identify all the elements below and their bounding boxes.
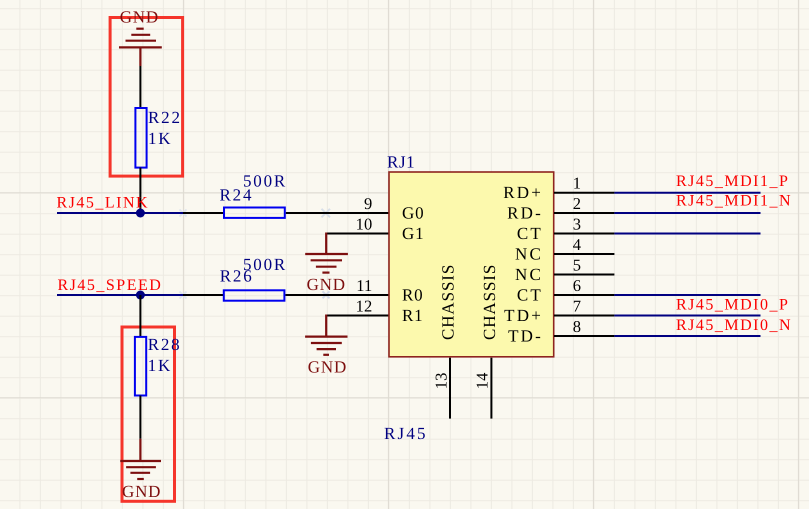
- pin name RD-: [507, 204, 543, 223]
- svg-text:12: 12: [356, 297, 373, 316]
- resistor R24: [220, 172, 288, 218]
- svg-text:CT: CT: [517, 286, 543, 305]
- svg-text:CHASSIS: CHASSIS: [439, 264, 458, 340]
- svg-text:500R: 500R: [243, 255, 287, 274]
- power port GND (pin 10): [305, 233, 348, 273]
- svg-text:7: 7: [573, 297, 581, 316]
- svg-text:8: 8: [573, 317, 581, 336]
- net label RJ45_MDI1_P: [676, 173, 789, 190]
- svg-text:13: 13: [431, 372, 450, 389]
- pin name CHASSIS (pin 14): [480, 264, 499, 340]
- wire pin 1: [614, 192, 760, 194]
- pin 10 number: [356, 215, 373, 234]
- wire / pin from GND to R22: [139, 66, 141, 108]
- GND label (bottom): [122, 482, 161, 501]
- pin name R0: [402, 286, 423, 305]
- pin 2: [554, 194, 614, 213]
- svg-text:2: 2: [573, 194, 581, 213]
- svg-text:3: 3: [573, 215, 581, 234]
- net label RJ45_MDI0_N: [676, 317, 792, 334]
- wire pin 7: [614, 315, 760, 317]
- pin name R1: [402, 306, 423, 325]
- svg-text:9: 9: [364, 194, 372, 213]
- pin 6: [554, 276, 614, 295]
- wire from junction to R28: [139, 295, 141, 337]
- pin 13: [431, 358, 450, 419]
- wire pin 6: [614, 294, 760, 296]
- GND label (pin 12): [308, 358, 347, 377]
- svg-text:RJ45_LINK: RJ45_LINK: [57, 195, 150, 212]
- pin name RD+: [503, 183, 543, 202]
- wire pin 8: [614, 335, 760, 337]
- pin name G1: [402, 224, 424, 243]
- junction on RJ45_SPEED: [136, 291, 145, 300]
- svg-text:GND: GND: [307, 275, 346, 294]
- svg-text:R0: R0: [402, 286, 423, 305]
- svg-text:GND: GND: [122, 482, 161, 501]
- svg-text:RD+: RD+: [503, 183, 543, 202]
- GND label (pin 10): [307, 275, 346, 294]
- connector RJ1 body: [389, 172, 554, 357]
- GND label (top): [120, 8, 159, 27]
- wire vertex marker (LINK): [180, 210, 187, 217]
- no-ERC marker on pin 11: [323, 291, 330, 298]
- net label RJ45_MDI0_P: [676, 297, 789, 314]
- net label RJ45_SPEED: [58, 277, 163, 294]
- red highlight box around R28/GND: [122, 327, 175, 501]
- svg-text:1K: 1K: [148, 129, 172, 148]
- wire from R22 to junction: [139, 168, 141, 213]
- svg-text:NC: NC: [515, 265, 543, 284]
- pin name NC (pin 5): [515, 265, 543, 284]
- pin 4: [554, 235, 614, 254]
- svg-text:TD-: TD-: [508, 327, 543, 346]
- wire pin 3: [614, 233, 760, 235]
- pin 12 wire to GND: [326, 315, 389, 317]
- svg-text:14: 14: [472, 372, 491, 389]
- svg-text:RJ45_MDI0_N: RJ45_MDI0_N: [676, 317, 792, 334]
- pin 9 number: [364, 194, 372, 213]
- red highlight box around R22/GND: [110, 18, 183, 177]
- svg-text:CHASSIS: CHASSIS: [480, 264, 499, 340]
- net label RJ45_MDI1_N: [676, 193, 792, 210]
- svg-text:NC: NC: [515, 245, 543, 264]
- svg-text:11: 11: [356, 276, 372, 295]
- junction on RJ45_LINK: [136, 209, 145, 218]
- wire/pins R26 to RJ1 pin 11: [183, 294, 389, 296]
- svg-text:TD+: TD+: [504, 306, 543, 325]
- wire RJ45_SPEED: [57, 294, 183, 296]
- svg-text:R22: R22: [148, 108, 182, 127]
- svg-text:RJ45: RJ45: [384, 424, 428, 443]
- pin 12 number: [356, 297, 373, 316]
- svg-text:4: 4: [573, 235, 581, 254]
- svg-text:10: 10: [356, 215, 373, 234]
- pin 5: [554, 256, 614, 275]
- svg-text:GND: GND: [120, 8, 159, 27]
- svg-text:RJ45_MDI1_P: RJ45_MDI1_P: [676, 173, 789, 190]
- pin name TD+: [504, 306, 543, 325]
- svg-text:RJ45_MDI1_N: RJ45_MDI1_N: [676, 193, 792, 210]
- pin 10 wire to GND: [326, 233, 389, 235]
- pin name TD-: [508, 327, 543, 346]
- svg-text:RJ45_MDI0_P: RJ45_MDI0_P: [676, 297, 789, 314]
- pin name CT (pin 6): [517, 286, 543, 305]
- wire/pins R24 to RJ1 pin 9: [183, 212, 389, 214]
- resistor R28: [135, 335, 182, 396]
- wire RJ45_LINK: [57, 212, 183, 214]
- pin name CT (pin 3): [517, 224, 543, 243]
- wire pin 2: [614, 212, 760, 214]
- pin name CHASSIS (pin 13): [439, 264, 458, 340]
- wire vertex marker (SPEED): [180, 292, 187, 299]
- svg-text:R1: R1: [402, 306, 423, 325]
- power port GND (top, inverted): [119, 29, 162, 66]
- comment RJ45: [384, 424, 428, 443]
- power port GND (bottom): [120, 439, 161, 479]
- power port GND (pin 12): [305, 315, 347, 355]
- designator RJ1: [387, 153, 415, 172]
- svg-text:G0: G0: [402, 204, 424, 223]
- resistor R22: [135, 108, 181, 168]
- net label RJ45_LINK: [57, 195, 150, 212]
- svg-text:1: 1: [573, 174, 581, 193]
- pin 1: [554, 174, 614, 193]
- no-ERC marker on pin 9: [322, 209, 331, 218]
- svg-text:RJ1: RJ1: [387, 153, 415, 172]
- svg-text:RJ45_SPEED: RJ45_SPEED: [58, 277, 163, 294]
- pin 14: [472, 358, 491, 419]
- svg-text:1K: 1K: [148, 356, 172, 375]
- svg-text:RD-: RD-: [507, 204, 543, 223]
- pin 8: [554, 317, 614, 336]
- svg-text:GND: GND: [308, 358, 347, 377]
- pin 3: [554, 215, 614, 234]
- wire from R28 to ground: [139, 396, 141, 439]
- svg-text:G1: G1: [402, 224, 424, 243]
- svg-text:6: 6: [573, 276, 581, 295]
- resistor R26: [220, 255, 287, 301]
- pin name G0: [402, 204, 424, 223]
- pin 7: [554, 297, 614, 316]
- svg-text:5: 5: [573, 256, 581, 275]
- svg-text:CT: CT: [517, 224, 543, 243]
- svg-text:500R: 500R: [243, 172, 287, 191]
- pin name NC (pin 4): [515, 245, 543, 264]
- pin 11 number: [356, 276, 372, 295]
- svg-text:R28: R28: [148, 335, 182, 354]
